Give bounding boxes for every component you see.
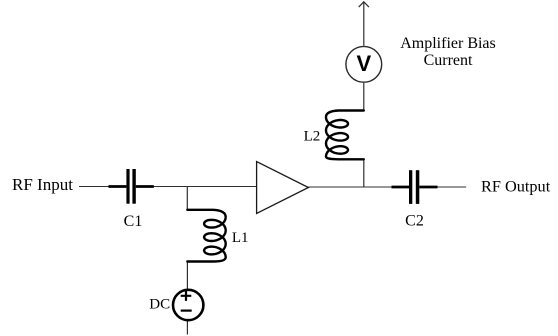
- svg-text:L1: L1: [232, 230, 249, 246]
- svg-text:L2: L2: [304, 129, 321, 145]
- svg-text:V: V: [356, 51, 371, 76]
- svg-text:DC: DC: [149, 297, 170, 313]
- svg-text:RF Input: RF Input: [12, 175, 73, 194]
- svg-text:Amplifier Bias: Amplifier Bias: [400, 35, 496, 52]
- svg-text:RF Output: RF Output: [481, 176, 551, 195]
- svg-text:Current: Current: [424, 52, 473, 69]
- svg-text:C1: C1: [124, 213, 143, 230]
- svg-text:C2: C2: [405, 213, 424, 230]
